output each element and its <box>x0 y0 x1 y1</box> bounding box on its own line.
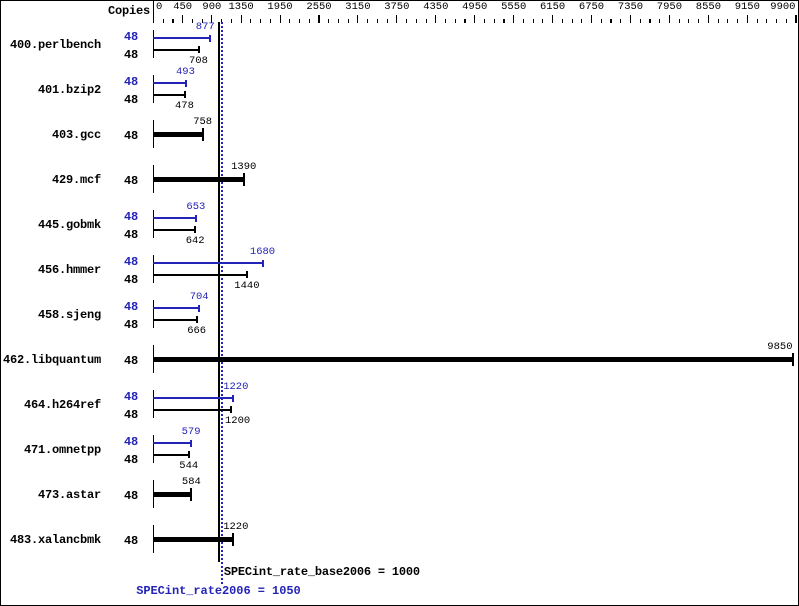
peak value label 1680 <box>250 247 275 258</box>
chart border <box>0 0 799 1</box>
copies 429.mcf <box>124 175 138 187</box>
copies 483.xalancbmk <box>124 535 138 547</box>
bracket 462.libquantum <box>153 345 154 373</box>
peak reference line 1050 (dotted) <box>221 22 223 584</box>
peak value label 877 <box>196 22 215 33</box>
base value label 708 <box>189 56 208 67</box>
base bar 456.hmmer = 1440 <box>153 274 247 276</box>
copies(peak) 458.sjeng <box>124 301 138 313</box>
copies 473.astar <box>124 490 138 502</box>
bar 483.xalancbmk = 1220 <box>153 537 233 542</box>
base metric label <box>224 566 420 578</box>
benchmark 401.bzip2 <box>38 84 101 96</box>
peak bar 456.hmmer = 1680 <box>153 262 263 264</box>
bracket 483.xalancbmk <box>153 525 154 553</box>
bar 462.libquantum = 9850 <box>153 357 793 362</box>
benchmark 456.hmmer <box>38 264 101 276</box>
peak bar 445.gobmk = 653 <box>153 217 196 219</box>
copies(peak) 456.hmmer <box>124 256 138 268</box>
copies(base) 464.h264ref <box>124 409 138 421</box>
copies 403.gcc <box>124 130 138 142</box>
bar 429.mcf = 1390 <box>153 177 244 182</box>
value label 9850 <box>767 342 792 353</box>
benchmark 483.xalancbmk <box>10 534 101 546</box>
benchmark 429.mcf <box>52 174 101 186</box>
bracket 429.mcf <box>153 165 154 193</box>
copies(base) 458.sjeng <box>124 319 138 331</box>
copies(base) 400.perlbench <box>124 49 138 61</box>
base bar 401.bzip2 = 478 <box>153 94 185 96</box>
peak value label 653 <box>186 202 205 213</box>
benchmark 400.perlbench <box>10 39 101 51</box>
bracket 403.gcc <box>153 120 154 148</box>
copies(peak) 464.h264ref <box>124 391 138 403</box>
base value label 666 <box>187 326 206 337</box>
axis ticks <box>163 19 164 23</box>
base bar 400.perlbench = 708 <box>153 49 199 51</box>
copies(base) 445.gobmk <box>124 229 138 241</box>
base bar 458.sjeng = 666 <box>153 319 197 321</box>
benchmark 403.gcc <box>52 129 101 141</box>
bar 403.gcc = 758 <box>153 132 203 137</box>
base value label 642 <box>186 236 205 247</box>
bracket 458.sjeng <box>153 300 154 328</box>
copies(peak) 400.perlbench <box>124 31 138 43</box>
bracket 400.perlbench <box>153 30 154 58</box>
copies(peak) 445.gobmk <box>124 211 138 223</box>
peak bar 458.sjeng = 704 <box>153 307 199 309</box>
benchmark 471.omnetpp <box>24 444 101 456</box>
copies 462.libquantum <box>124 355 138 367</box>
bracket 401.bzip2 <box>153 75 154 103</box>
peak bar 401.bzip2 = 493 <box>153 82 186 84</box>
Copies column header <box>108 5 150 17</box>
base value label 544 <box>179 461 198 472</box>
bracket 445.gobmk <box>153 210 154 238</box>
base bar 445.gobmk = 642 <box>153 229 195 231</box>
benchmark 462.libquantum <box>3 354 101 366</box>
base value label 1440 <box>234 281 259 292</box>
bracket 456.hmmer <box>153 255 154 283</box>
value label 1220 <box>223 522 248 533</box>
peak bar 464.h264ref = 1220 <box>153 397 233 399</box>
base value label 1200 <box>225 416 250 427</box>
peak metric label <box>136 585 300 597</box>
benchmark 473.astar <box>38 489 101 501</box>
bar 473.astar = 584 <box>153 492 191 497</box>
axis tick labels <box>156 2 162 13</box>
value label 758 <box>193 117 212 128</box>
copies(base) 401.bzip2 <box>124 94 138 106</box>
value label 584 <box>182 477 201 488</box>
base bar 471.omnetpp = 544 <box>153 454 189 456</box>
peak bar 400.perlbench = 877 <box>153 37 210 39</box>
peak value label 1220 <box>223 382 248 393</box>
base bar 464.h264ref = 1200 <box>153 409 231 411</box>
benchmark 458.sjeng <box>38 309 101 321</box>
copies(base) 471.omnetpp <box>124 454 138 466</box>
benchmark 464.h264ref <box>24 399 101 411</box>
value label 1390 <box>231 162 256 173</box>
bracket 464.h264ref <box>153 390 154 418</box>
peak value label 704 <box>190 292 209 303</box>
peak value label 493 <box>176 67 195 78</box>
peak value label 579 <box>182 427 201 438</box>
base value label 478 <box>175 101 194 112</box>
copies(peak) 401.bzip2 <box>124 76 138 88</box>
copies(base) 456.hmmer <box>124 274 138 286</box>
bracket 473.astar <box>153 480 154 508</box>
benchmark 445.gobmk <box>38 219 101 231</box>
axis vertical line <box>153 1 154 23</box>
copies(peak) 471.omnetpp <box>124 436 138 448</box>
peak bar 471.omnetpp = 579 <box>153 442 191 444</box>
bracket 471.omnetpp <box>153 435 154 463</box>
base reference line 1000 <box>218 22 220 562</box>
